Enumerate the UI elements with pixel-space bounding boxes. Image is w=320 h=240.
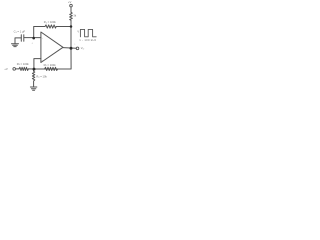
svg-text:R3 = 100k: R3 = 100k <box>17 62 30 66</box>
svg-text:R1 = 100k: R1 = 100k <box>44 20 57 24</box>
svg-text:6: 6 <box>32 43 34 45</box>
svg-text:R2 = 10k: R2 = 10k <box>36 74 47 78</box>
op-amp U1 <box>41 32 63 63</box>
wire <box>15 38 21 44</box>
resistor R5 hysteresis <box>45 67 58 70</box>
svg-text:R5 = 100k: R5 = 100k <box>44 63 57 67</box>
wire <box>28 68 33 70</box>
wire <box>70 7 72 12</box>
resistor R1 feedback <box>45 25 56 28</box>
node output junction <box>70 47 73 50</box>
wire <box>56 26 71 28</box>
svg-text:1 - 100 kHz: 1 - 100 kHz <box>79 38 96 42</box>
+V supply terminal top <box>70 4 73 7</box>
wire feedback top <box>34 27 45 39</box>
wire <box>16 68 19 70</box>
node divider junction <box>33 68 36 71</box>
resistor 3k pull-up <box>70 12 73 20</box>
wire <box>70 20 72 48</box>
resistor R3 lower-left <box>19 67 28 70</box>
output terminal <box>76 47 79 50</box>
capacitor C1 <box>21 35 24 41</box>
wire output <box>63 47 76 50</box>
svg-text:−: − <box>42 37 44 40</box>
square wave symbol <box>80 29 96 36</box>
svg-text:VO: VO <box>81 46 85 50</box>
wire inverting input <box>24 37 41 39</box>
svg-text:C1 = 1 µF: C1 = 1 µF <box>14 29 26 33</box>
svg-text:3k: 3k <box>73 14 76 18</box>
wire non-inverting input <box>34 59 41 69</box>
node inverting input junction <box>32 37 35 40</box>
node feedback column junction <box>70 25 73 28</box>
svg-text:+V: +V <box>4 67 8 71</box>
ground <box>30 87 36 90</box>
ground <box>12 44 19 47</box>
svg-text:1: 1 <box>74 44 75 46</box>
svg-text:V: V <box>77 29 79 33</box>
+V supply terminal left <box>13 68 16 71</box>
wire output column down <box>34 48 72 69</box>
resistor R2 divider vertical <box>32 69 34 87</box>
svg-text:+V: +V <box>68 0 72 4</box>
